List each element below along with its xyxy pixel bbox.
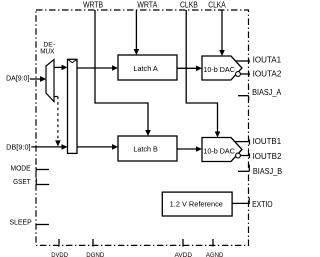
wire DVDD pin stub (58, 239, 60, 247)
svg-text:Latch B: Latch B (133, 145, 158, 154)
svg-text:WRTB: WRTB (83, 0, 103, 10)
wire BIASJ_B stub (238, 165, 249, 172)
input register (tall rectangle with clock notch) (68, 59, 78, 153)
wire DA input to demux (30, 76, 46, 82)
latch B box (118, 136, 177, 161)
wire EXTIO (232, 198, 250, 204)
wire CLKA to DAC A (219, 10, 225, 56)
svg-text:IOUTA2: IOUTA2 (253, 70, 282, 79)
wire IOUTA2 (240, 72, 250, 76)
DAC B (10-b DAC) (202, 138, 242, 162)
svg-text:BIASJ_B: BIASJ_B (253, 167, 282, 176)
wire SLEEP stub (36, 224, 49, 226)
svg-text:BIASJ_A: BIASJ_A (252, 88, 282, 97)
wire IOUTB1 (235, 140, 250, 145)
wire demux dashed route down to DB line (54, 97, 61, 147)
wire IOUTB2 (240, 153, 250, 158)
wire register to Latch B (77, 144, 118, 150)
chip boundary (dash-dot border) (36, 10, 249, 245)
wire IOUTA1 (236, 59, 250, 63)
wire AGND pin stub (212, 239, 214, 247)
wire Latch A to DAC A (177, 66, 202, 72)
svg-text:CLKB: CLKB (180, 0, 198, 10)
wire WRTB to Latch B (95, 10, 151, 136)
svg-text:10-b DAC: 10-b DAC (203, 147, 235, 156)
wire GSET stub (36, 178, 49, 184)
inverting bubble DAC A (236, 72, 241, 77)
inverting bubble DAC B (236, 153, 241, 158)
svg-text:WRTA: WRTA (137, 0, 157, 10)
svg-text:MODE: MODE (11, 163, 31, 172)
svg-text:MUX: MUX (40, 49, 54, 56)
wire WRTA to Latch A (134, 10, 140, 55)
wire MODE stub (36, 167, 49, 172)
svg-text:DE-: DE- (43, 42, 55, 49)
svg-text:CLKA: CLKA (208, 0, 226, 10)
wire DGND pin stub (92, 239, 94, 247)
wire register to Latch A (77, 65, 118, 71)
svg-text:DA[9:0]: DA[9:0] (6, 74, 29, 83)
svg-text:AVDD: AVDD (175, 252, 193, 257)
svg-text:IOUTA1: IOUTA1 (253, 56, 282, 65)
svg-text:DB[9:0]: DB[9:0] (6, 142, 31, 151)
wire AVDD pin stub (182, 239, 184, 247)
1.2 V reference box (162, 192, 232, 216)
wire Latch B to DAC B (177, 146, 202, 152)
wire CLKB to DAC B (186, 10, 220, 138)
svg-text:IOUTB2: IOUTB2 (253, 152, 282, 161)
svg-text:SLEEP: SLEEP (9, 218, 32, 227)
label DE- MUX (40, 42, 55, 56)
svg-text:IOUTB1: IOUTB1 (253, 137, 282, 146)
wire DB input to register (31, 144, 67, 150)
svg-text:GSET: GSET (13, 177, 31, 186)
svg-text:Latch A: Latch A (133, 64, 158, 73)
svg-text:DGND: DGND (86, 252, 104, 257)
wire demux to input register (A path) (54, 65, 68, 71)
svg-text:AGND: AGND (206, 252, 224, 257)
DAC A (10-b DAC) (202, 56, 242, 80)
latch A box (118, 55, 177, 80)
svg-text:10-b DAC: 10-b DAC (203, 65, 235, 74)
wire BIASJ_A stub (238, 96, 249, 101)
demux (1-to-2) trapezoid (46, 60, 54, 102)
svg-text:1.2 V Reference: 1.2 V Reference (170, 199, 223, 208)
svg-text:DVDD: DVDD (51, 252, 68, 257)
svg-text:EXTIO: EXTIO (252, 200, 273, 209)
